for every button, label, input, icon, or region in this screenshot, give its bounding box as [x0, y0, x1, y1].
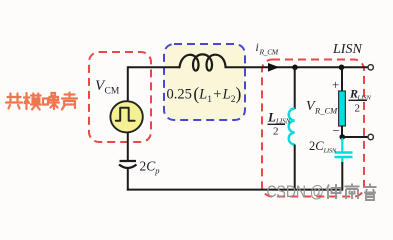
inductor L_LISN/2 coil (cyan)	[289, 109, 295, 145]
node: tap between resistor and capacitor	[340, 134, 346, 140]
label: LISN	[332, 42, 362, 57]
box: common-mode source enclosure (red dashed)	[89, 52, 151, 142]
wire: top horizontal rail	[128, 66, 368, 68]
node: junction of resistor branch on top rail	[339, 65, 345, 71]
label: V_CM	[95, 78, 120, 97]
wire: capacitor to bottom rail	[341, 162, 343, 191]
label: L_LISN/2 fraction	[267, 110, 291, 138]
capacitor 2C_LISN (cyan)	[335, 153, 353, 163]
watermark: CSDN @仲南音	[267, 182, 377, 201]
svg-text:+: +	[332, 77, 339, 92]
svg-text:R_CM: R_CM	[259, 48, 279, 57]
label: plus sign	[332, 77, 339, 92]
wire: source bottom to capacitor	[127, 132, 129, 161]
wire: L_LISN branch upper lead	[294, 67, 296, 109]
label: minus sign	[333, 123, 340, 138]
label: 2C_LISN	[309, 139, 337, 155]
char 噪	[43, 93, 59, 109]
label: R_LISN/2 fraction	[349, 87, 372, 115]
label: 共模噪声 (common-mode noise, orange, hand-drawn strokes)	[6, 93, 77, 110]
box: LISN enclosure (red dashed)	[262, 60, 364, 197]
label: V_R_CM	[306, 99, 338, 116]
box: equivalent inductance enclosure (blue dashed, yellow fill)	[164, 44, 245, 120]
voltage source V_CM (pulse source)	[110, 101, 142, 132]
wire: resistor branch upper lead	[341, 67, 343, 92]
wire: tap to bottom terminal	[342, 136, 367, 138]
svg-text:2CLISN: 2CLISN	[309, 139, 337, 155]
svg-text:CM: CM	[105, 87, 120, 97]
svg-text:CSDN @: CSDN @	[267, 182, 325, 201]
char 音	[364, 184, 377, 201]
svg-text:−: −	[333, 123, 340, 138]
wire: bottom horizontal rail	[127, 189, 343, 191]
terminal: top right open circle	[368, 65, 373, 70]
resistor R_LISN/2 (cyan rect)	[339, 91, 346, 126]
svg-text:2Cp: 2Cp	[140, 159, 160, 176]
wire: L_LISN branch lower lead	[294, 145, 296, 191]
svg-text:L: L	[267, 110, 276, 125]
char 仲	[327, 184, 341, 199]
svg-text:R_CM: R_CM	[314, 106, 338, 116]
label: 0.25(L1+L2)	[167, 84, 242, 106]
label: i_R_CM	[256, 42, 279, 57]
terminal: bottom right open circle	[368, 134, 373, 139]
wire: resistor bottom to node	[341, 126, 343, 138]
svg-text:i: i	[256, 42, 259, 54]
svg-text:0.25 (L1 + L2): 0.25 (L1 + L2)	[167, 84, 242, 106]
svg-text:LISN: LISN	[332, 42, 362, 57]
char 共	[6, 94, 22, 109]
svg-text:2: 2	[273, 126, 279, 138]
char 声	[62, 93, 77, 110]
current arrow i_R_CM	[268, 63, 279, 72]
char 南	[345, 184, 360, 200]
svg-text:2: 2	[355, 103, 361, 115]
capacitor 2Cp	[119, 161, 137, 168]
inductor 0.25(L1+L2) coil	[180, 54, 226, 70]
node: junction of L_LISN branch on top rail	[292, 65, 298, 71]
label: 2Cp	[140, 159, 160, 176]
wire: vertical from source top to rail	[127, 66, 129, 102]
wire: capacitor to bottom rail	[127, 168, 129, 191]
wire: tap down to capacitor (cyan lead)	[341, 138, 343, 152]
char 模	[24, 93, 41, 110]
